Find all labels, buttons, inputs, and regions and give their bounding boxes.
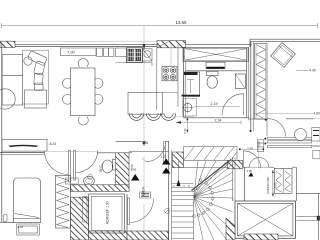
- svg-text:ΑΣΑΝΣΕΡ 1.00: ΑΣΑΝΣΕΡ 1.00: [106, 201, 110, 224]
- wall hatch wc right: [116, 153, 130, 191]
- dimension line top 13.65: [1, 23, 318, 28]
- stair top hatch left: [173, 152, 184, 168]
- svg-text:2.19: 2.19: [211, 102, 218, 106]
- kitchen small sink w circle: [143, 49, 153, 61]
- dim 1.05 left triangle: [131, 168, 140, 181]
- svg-text:0.90: 0.90: [183, 128, 187, 134]
- stair treads upper left: [172, 182, 194, 184]
- wall left exterior: [1, 44, 3, 222]
- right room bottom wall faint ext: [313, 118, 320, 120]
- wall hatch left of shaft: [71, 197, 89, 240]
- corridor bottom wall right: [312, 145, 320, 147]
- toilet bath: [207, 71, 219, 88]
- svg-text:ΗΛΕΚΤΡ.ΟΔΥ: ΗΛΕΚΤΡ.ΟΔΥ: [266, 177, 270, 194]
- wall top main: [0, 44, 252, 46]
- svg-text:W.C.: W.C.: [99, 164, 103, 172]
- shower: [182, 72, 201, 97]
- svg-text:0.90: 0.90: [257, 141, 261, 147]
- wall bedroom bottom: [0, 221, 14, 223]
- elevator: [235, 201, 296, 238]
- couch left wall: [2, 55, 23, 106]
- closet elektr: [274, 168, 292, 193]
- dining table: [71, 68, 96, 116]
- right rooms divider wall: [251, 42, 253, 131]
- dim 2.34: [175, 115, 241, 125]
- window sill bath: [206, 62, 225, 69]
- wall right of shaft: [126, 194, 128, 240]
- dining chairs: [62, 58, 103, 125]
- stair tread numbers: [173, 186, 204, 195]
- sofa rug: [23, 50, 49, 104]
- corridor table circle: [295, 129, 307, 141]
- dim 4.45: [296, 69, 316, 73]
- shaft: [89, 194, 125, 233]
- wall hatch left of elevator: [226, 218, 235, 240]
- wall kitchen-bath: [184, 48, 186, 118]
- corridor amea walls: [169, 141, 172, 240]
- wall top right rooms: [250, 39, 320, 47]
- hob 4 burners: [162, 67, 177, 81]
- stair top band B: [184, 160, 238, 167]
- svg-text:0.90: 0.90: [274, 182, 278, 188]
- small box right edge: [313, 150, 320, 158]
- square table: [25, 90, 47, 108]
- right room bottom wall: [249, 118, 313, 120]
- wall living bottom left: [0, 153, 45, 155]
- axis line kitchen: [143, 26, 145, 142]
- svg-text:1.66: 1.66: [142, 141, 148, 145]
- stair lower flight: [192, 199, 194, 240]
- svg-text:7.90: 7.90: [67, 49, 76, 54]
- double door living-wc: [45, 151, 98, 183]
- door lintel line: [45, 150, 98, 152]
- wall hatch below wc: [71, 185, 130, 192]
- kitchen counter 7.90 box: [61, 48, 97, 56]
- bathroom bottom wall: [184, 117, 249, 119]
- kitchen cabinet boxes: [97, 48, 127, 56]
- kitchen counter right vertical: [116, 44, 179, 110]
- leader box shaft: [140, 192, 151, 198]
- svg-text:4.45: 4.45: [309, 69, 316, 73]
- washbasin: [182, 99, 197, 117]
- svg-text:0.80: 0.80: [130, 164, 134, 170]
- door shaft corridor: [128, 198, 154, 225]
- wall hatch below shaft: [89, 231, 169, 240]
- stair circle symbol: [165, 209, 170, 214]
- dim line elektr 0.90: [272, 170, 274, 197]
- stair top hatch right: [228, 160, 243, 169]
- closet zigzag right room: [255, 44, 268, 120]
- wall hatch bathroom top: [157, 41, 186, 48]
- bar stools: [129, 113, 175, 120]
- stair right wall: [232, 157, 234, 198]
- dim line bath-hall: [183, 117, 188, 134]
- bathroom right wall: [247, 48, 249, 121]
- kitchen bottom wall: [116, 141, 169, 143]
- right corridor lines bottom: [296, 193, 320, 240]
- elektr room walls: [233, 167, 296, 201]
- door stair entry: [243, 151, 260, 169]
- stair dim 1.05 triangle: [162, 168, 171, 174]
- leader line vertical: [257, 141, 259, 168]
- dim 3.95 line: [239, 148, 264, 150]
- dim 2.19: [194, 102, 240, 106]
- svg-text:8.24: 8.24: [50, 142, 57, 146]
- stair stringer diagonal: [192, 160, 232, 191]
- wall wc top: [98, 151, 169, 152]
- corridor door right: [267, 118, 286, 136]
- svg-text:4.60: 4.60: [313, 111, 320, 115]
- stair top band A: [184, 147, 238, 161]
- dim 4.60: [254, 111, 320, 115]
- skylight X box over bath: [183, 47, 249, 61]
- door hall kitchen: [146, 142, 166, 162]
- kitchen island: [128, 93, 178, 115]
- radiator left: [4, 215, 8, 222]
- bench under bed: [17, 224, 40, 235]
- wc toilet: [102, 160, 116, 174]
- dim triangle stair door: [247, 169, 254, 177]
- svg-text:13.65: 13.65: [176, 20, 188, 25]
- svg-text:2.34: 2.34: [215, 119, 222, 123]
- tv console: [2, 139, 47, 151]
- sofa chaise: [24, 51, 48, 91]
- shaft duct: [83, 197, 87, 223]
- corridor dim line: [142, 156, 147, 238]
- bed: [14, 178, 41, 223]
- corridor jamb box: [257, 140, 264, 152]
- corridor step bars: [268, 137, 312, 147]
- wall hatch below elevator: [244, 234, 278, 240]
- corridor label box: [312, 128, 320, 142]
- svg-text:1.05: 1.05: [247, 169, 253, 173]
- stair fan: [194, 161, 233, 240]
- stairs: [172, 147, 243, 240]
- door elektr: [249, 158, 268, 168]
- bathroom top wall line: [186, 70, 247, 72]
- stair walkline circles: [193, 179, 214, 218]
- kitchen sink dark unit: [126, 48, 142, 62]
- armchair rotated right room: [271, 43, 296, 68]
- svg-text:4.04: 4.04: [17, 225, 23, 229]
- wc sink: [84, 174, 95, 185]
- wall hatch top-left: [0, 41, 15, 47]
- closet bedroom: [56, 175, 71, 228]
- round table: [0, 89, 15, 109]
- svg-text:1.05: 1.05: [161, 155, 167, 159]
- dim 1.05 right triangle: [161, 155, 171, 165]
- bathroom door: [222, 94, 244, 116]
- svg-text:ΑΜΕΑ: ΑΜΕΑ: [142, 186, 146, 197]
- wc grab bar: [65, 178, 78, 184]
- svg-text:3.95: 3.95: [247, 147, 253, 151]
- stair arrow marker: [177, 180, 181, 187]
- bath shelf right: [235, 74, 245, 89]
- dim dots corridor: [250, 119, 267, 145]
